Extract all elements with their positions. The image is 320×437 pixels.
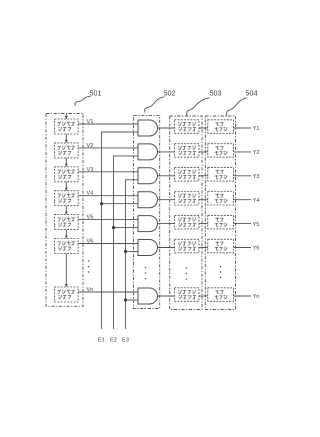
wire V1 <box>78 123 138 125</box>
level shifter block 2 <box>175 144 200 158</box>
junction on E1 <box>100 202 103 205</box>
svg-text:Yn: Yn <box>253 294 260 300</box>
svg-text:Y2: Y2 <box>253 150 260 156</box>
AND gate 2 <box>138 144 158 160</box>
svg-text:E2: E2 <box>110 337 117 343</box>
ellipsis buffer column <box>220 266 222 279</box>
wire V5 <box>78 219 138 221</box>
svg-text:Y4: Y4 <box>253 198 260 204</box>
wire V3 <box>78 171 138 173</box>
svg-text:Y3: Y3 <box>253 174 260 180</box>
svg-text:E3: E3 <box>122 337 129 343</box>
wire: E2 tap to gate 5 <box>114 227 139 229</box>
leader to 503 <box>187 98 210 116</box>
svg-text:V3: V3 <box>87 167 94 173</box>
wire: output Y3 <box>234 175 252 177</box>
wire: level shifter 6 to buffer 6 <box>199 247 208 249</box>
buffer block 4 <box>208 192 234 206</box>
dashed box 501 <box>46 114 83 307</box>
wire: level shifter 4 to buffer 4 <box>199 199 208 201</box>
svg-text:Y1: Y1 <box>253 126 260 132</box>
svg-text:Y6: Y6 <box>253 246 260 252</box>
buffer block n <box>208 288 234 302</box>
shift register block 2 <box>54 143 78 158</box>
junction on E3 <box>124 250 127 253</box>
ellipsis V column <box>88 260 90 273</box>
buffer block 2 <box>208 144 234 158</box>
wire: gate 5 output <box>158 223 175 225</box>
wire Vn <box>78 291 138 293</box>
level shifter block 3 <box>175 168 200 182</box>
shift register block 6 <box>54 239 78 254</box>
wire: gate 3 output <box>158 175 175 177</box>
wire V6 <box>78 243 138 245</box>
svg-text:Vn: Vn <box>87 287 94 293</box>
junction on E3 at gate n <box>124 299 127 302</box>
svg-text:V6: V6 <box>87 239 94 245</box>
wire: SR chain 4 to 5 <box>65 206 67 215</box>
buffer block 5 <box>208 215 234 229</box>
shift register block 5 <box>54 215 78 230</box>
wire: SR chain 5 to 6 <box>65 230 67 239</box>
wire: gate n output <box>158 295 175 297</box>
wire: gate 4 output <box>158 199 175 201</box>
level shifter block 1 <box>175 120 200 134</box>
buffer block 1 <box>208 120 234 134</box>
AND gate 5 <box>138 216 158 232</box>
dashed box 503 <box>170 116 202 310</box>
level shifter block n <box>175 288 200 302</box>
ellipsis gate column <box>145 267 147 280</box>
wire: input into first SR block <box>65 114 67 119</box>
wire: SR chain 3 to 4 <box>65 182 67 191</box>
AND gate 1 <box>138 120 158 136</box>
level shifter block 5 <box>175 215 200 229</box>
buffer block 3 <box>208 168 234 182</box>
AND gate n <box>138 288 158 304</box>
dashed box 504 <box>205 116 235 310</box>
wire: E1 tap to gate 4 <box>102 203 139 205</box>
svg-text:V1: V1 <box>87 119 94 125</box>
dashed box 502 <box>134 116 160 309</box>
wire: output Yn <box>234 295 252 297</box>
wire: level shifter 1 to buffer 1 <box>199 127 208 129</box>
svg-text:Y5: Y5 <box>253 222 260 228</box>
buffer block 6 <box>208 239 234 253</box>
junction on E2 <box>112 226 115 229</box>
wire E3 bus <box>126 180 139 329</box>
wire: output Y4 <box>234 199 252 201</box>
wire: SR chain 1 to 2 <box>65 134 67 143</box>
wire: output Y5 <box>234 223 252 225</box>
wire: SR chain 6 to n <box>65 254 67 287</box>
leader to 504 <box>227 98 247 116</box>
svg-text:V5: V5 <box>87 215 94 221</box>
wire: output Y1 <box>234 127 252 129</box>
wire: gate 2 output <box>158 151 175 153</box>
wire: E3 tap to gate 6 <box>126 251 139 253</box>
wire: gate 6 output <box>158 247 175 249</box>
svg-text:502: 502 <box>163 89 175 98</box>
shift register block 1 <box>54 119 78 134</box>
wire V2 <box>78 147 138 149</box>
svg-text:E1: E1 <box>98 337 105 343</box>
svg-text:V4: V4 <box>87 191 94 197</box>
wire: E3 tap to gate n <box>126 299 139 301</box>
wire: output Y6 <box>234 247 252 249</box>
wire: gate 1 output <box>158 127 175 129</box>
wire E2 bus <box>114 156 139 329</box>
wire: level shifter 5 to buffer 5 <box>199 223 208 225</box>
wire V4 <box>78 195 138 197</box>
shift register block n <box>54 287 78 302</box>
level shifter block 4 <box>175 192 200 206</box>
leader to 502 <box>145 97 165 113</box>
svg-text:501: 501 <box>89 89 101 98</box>
shift register block 4 <box>54 191 78 206</box>
wire: level shifter 3 to buffer 3 <box>199 175 208 177</box>
level shifter block 6 <box>175 239 200 253</box>
wire: level shifter 2 to buffer 2 <box>199 151 208 153</box>
svg-text:V2: V2 <box>87 143 94 149</box>
leader to 501 <box>75 96 91 106</box>
svg-text:503: 503 <box>209 89 221 98</box>
wire E1 bus <box>102 132 139 329</box>
AND gate 6 <box>138 240 158 256</box>
svg-text:504: 504 <box>245 89 257 98</box>
AND gate 4 <box>138 192 158 208</box>
wire: output Y2 <box>234 151 252 153</box>
wire: level shifter n to buffer n <box>199 295 208 297</box>
ellipsis level shifter column <box>186 267 188 280</box>
AND gate 3 <box>138 168 158 184</box>
wire: SR chain 2 to 3 <box>65 158 67 167</box>
shift register block 3 <box>54 167 78 182</box>
